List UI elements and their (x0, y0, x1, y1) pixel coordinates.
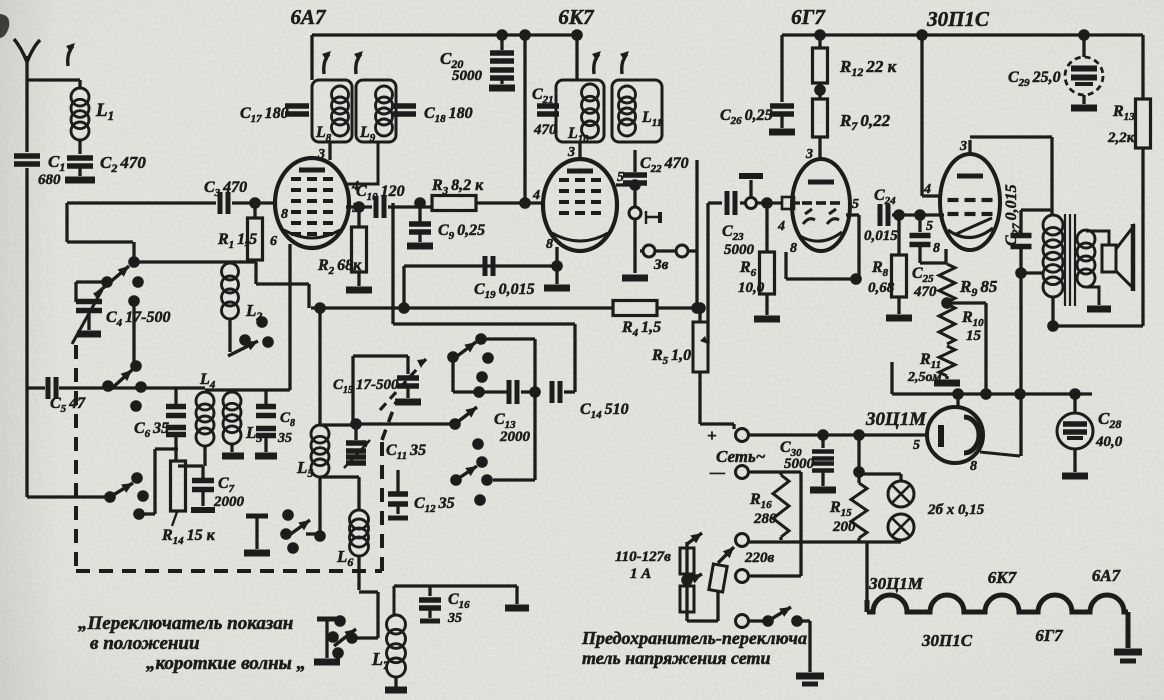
svg-text:6Г7: 6Г7 (791, 5, 826, 29)
svg-text:5: 5 (926, 219, 933, 234)
svg-text:1 А: 1 А (630, 566, 651, 582)
svg-text:2000: 2000 (213, 494, 245, 510)
svg-text:280: 280 (753, 511, 777, 527)
svg-text:Сеть~: Сеть~ (716, 447, 766, 466)
svg-text:35: 35 (277, 431, 292, 446)
svg-text:в положении: в положении (90, 633, 200, 654)
svg-text:110-127в: 110-127в (615, 549, 671, 565)
svg-text:5000: 5000 (724, 242, 755, 258)
svg-text:5: 5 (617, 170, 624, 185)
svg-text:—: — (709, 465, 725, 481)
svg-text:6: 6 (270, 234, 277, 249)
svg-text:4: 4 (923, 182, 931, 197)
svg-text:8: 8 (970, 459, 977, 474)
svg-text:С2470: С2470 (100, 153, 146, 175)
svg-text:3: 3 (805, 147, 813, 162)
svg-text:3: 3 (959, 139, 967, 154)
svg-text:6А7: 6А7 (290, 5, 327, 29)
svg-text:„короткие волны „: „короткие волны „ (146, 653, 306, 674)
svg-text:0,015: 0,015 (864, 228, 898, 244)
svg-text:6К7: 6К7 (988, 568, 1018, 587)
svg-text:5: 5 (913, 438, 920, 453)
svg-text:470: 470 (533, 122, 557, 138)
svg-text:15: 15 (966, 328, 982, 344)
svg-text:8: 8 (281, 207, 288, 222)
svg-text:5000: 5000 (784, 456, 815, 472)
svg-text:470: 470 (913, 284, 937, 300)
svg-text:4: 4 (777, 219, 785, 234)
svg-text:Предохранитель-переключа: Предохранитель-переключа (581, 628, 807, 648)
svg-text:680: 680 (38, 172, 61, 188)
svg-text:8: 8 (790, 241, 797, 256)
svg-text:5000: 5000 (452, 68, 483, 84)
svg-text:R1222 к: R1222 к (839, 57, 897, 79)
svg-text:6Г7: 6Г7 (1035, 626, 1064, 645)
svg-text:4: 4 (532, 188, 540, 203)
svg-text:5: 5 (852, 197, 859, 212)
svg-text:6А7: 6А7 (1092, 566, 1122, 585)
svg-text:тель напряжения сети: тель напряжения сети (582, 648, 771, 668)
svg-text:+: + (707, 426, 717, 445)
svg-text:6К7: 6К7 (558, 5, 595, 29)
svg-text:R70,22: R70,22 (839, 111, 891, 133)
svg-text:30П1С: 30П1С (921, 631, 973, 650)
svg-text:8: 8 (546, 237, 553, 252)
svg-text:35: 35 (447, 611, 462, 626)
svg-text:30Ц1М: 30Ц1М (865, 409, 927, 430)
svg-text:2,2к: 2,2к (1107, 130, 1135, 146)
svg-text:8: 8 (933, 241, 940, 256)
svg-text:„Переключатель показан: „Переключатель показан (78, 613, 293, 634)
svg-text:220в: 220в (744, 550, 775, 566)
svg-text:200: 200 (832, 519, 856, 535)
svg-text:40,0: 40,0 (1095, 434, 1123, 450)
svg-text:Зв: Зв (653, 257, 669, 273)
svg-text:2000: 2000 (499, 429, 531, 445)
svg-text:10,0: 10,0 (738, 280, 765, 296)
svg-text:30Ц1М: 30Ц1М (868, 574, 924, 593)
svg-text:2б x 0,15: 2б x 0,15 (927, 502, 985, 518)
svg-text:30П1С: 30П1С (926, 7, 990, 31)
svg-text:0,68: 0,68 (868, 280, 895, 296)
